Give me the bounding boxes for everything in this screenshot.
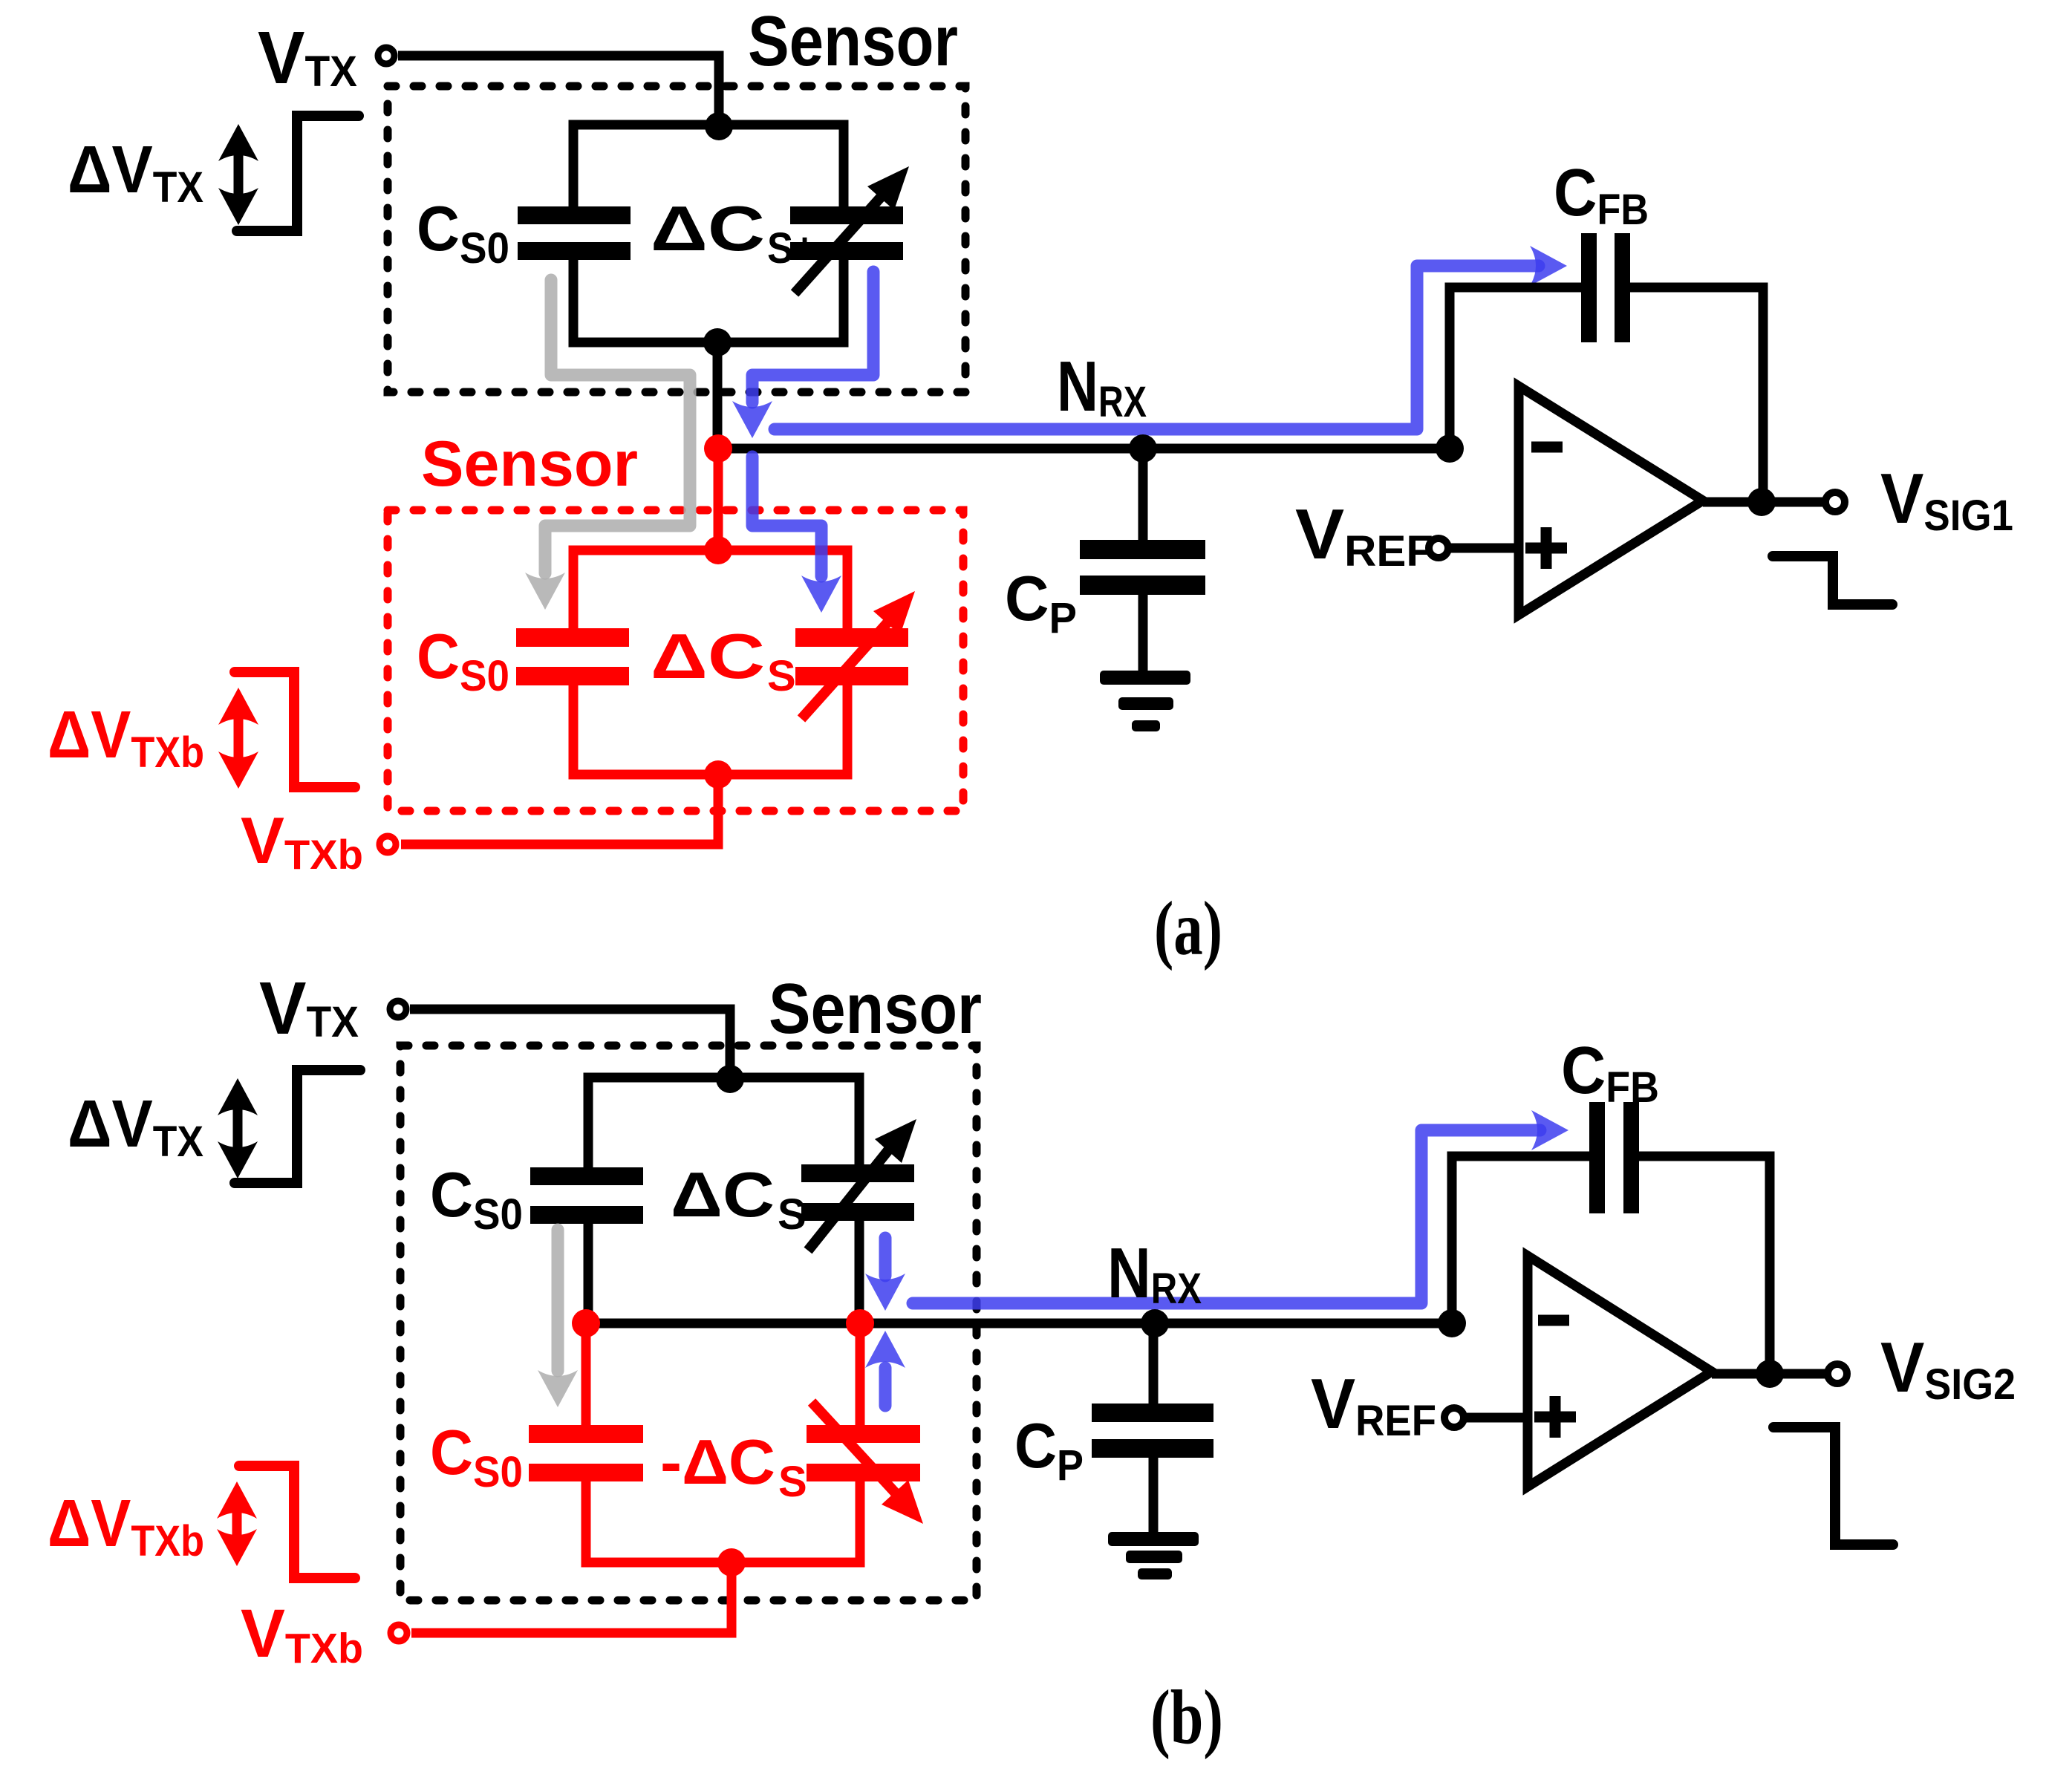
minus sign U1 (a) xyxy=(1531,442,1563,453)
svg-text:S+: S+ xyxy=(767,224,816,273)
wires red rail to red caps (b) xyxy=(586,1323,860,1427)
capacitor red C_S0 (b) plates xyxy=(529,1425,643,1443)
node red right (b) xyxy=(846,1309,874,1337)
node N_RX dot (a) xyxy=(1129,434,1157,463)
wire C_P to ground (a) xyxy=(1138,595,1148,672)
wires caps to middle rail (b) xyxy=(588,1219,859,1323)
svg-text:-ΔC: -ΔC xyxy=(660,1427,775,1498)
gray charge arrow (b) xyxy=(552,1230,564,1371)
step waveform dV_TXb (b) xyxy=(239,1466,355,1578)
svg-text:VSIG1: VSIG1 xyxy=(1880,459,2013,540)
svg-text:(a): (a) xyxy=(1154,886,1222,971)
variable arrow of dC_S (b) xyxy=(808,1147,891,1251)
node red left (b) xyxy=(572,1309,600,1337)
wire red top cap loop (a) xyxy=(573,550,847,630)
wire N_RX horizontal (a) xyxy=(717,444,1450,454)
sensor box (a) red dashed xyxy=(388,510,963,811)
svg-text:S-: S- xyxy=(767,652,810,700)
terminal V_TXb (a) xyxy=(379,836,396,852)
wire V_TX to sensor node (b) xyxy=(410,1009,730,1076)
blue arrow down at node (b) xyxy=(879,1238,892,1276)
svg-text:CP: CP xyxy=(1005,564,1077,642)
node red bottom (a) xyxy=(704,760,732,789)
wire feedback left (b) xyxy=(1452,1156,1589,1323)
blue charge path upper (a) xyxy=(752,272,873,402)
svg-text:CFB: CFB xyxy=(1554,156,1649,234)
blue charge path lower (a) xyxy=(752,457,821,576)
gray arrowhead (a) xyxy=(525,573,565,610)
svg-text:ΔVTX: ΔVTX xyxy=(68,1087,203,1166)
terminal V_REF (a) xyxy=(1429,538,1448,558)
node junction top (a) xyxy=(705,112,733,140)
capacitor C_FB (a) plates xyxy=(1581,233,1597,342)
svg-text:CP: CP xyxy=(1014,1411,1084,1490)
node junction top (b) xyxy=(716,1065,744,1093)
svg-text:VTXb: VTXb xyxy=(241,1596,363,1672)
terminal V_TXb (b) xyxy=(391,1625,407,1641)
wire op-amp output (a) xyxy=(1703,498,1824,507)
ground symbol (a) xyxy=(1100,671,1190,685)
node junction at op-amp input (a) xyxy=(1436,434,1464,463)
wire red bottom loop (b) xyxy=(586,1480,860,1562)
svg-text:Sensor: Sensor xyxy=(769,969,982,1049)
wire middle rail N_RX (b) xyxy=(586,1319,1452,1329)
op-amp U2 triangle (b) xyxy=(1528,1256,1712,1487)
wire feedback right to output (a) xyxy=(1630,287,1763,502)
wire V_REF to plus input (a) xyxy=(1450,544,1519,553)
wire V_TX to sensor top node xyxy=(398,56,719,120)
plus sign U1 (a) xyxy=(1525,527,1567,569)
svg-text:CS0: CS0 xyxy=(417,194,509,273)
terminal V_TX (b) xyxy=(390,1001,406,1017)
blue path along N_RX to C_FB (b) xyxy=(913,1130,1540,1303)
wire sensor to N_RX node (a) xyxy=(713,342,723,449)
svg-text:VREF: VREF xyxy=(1311,1364,1436,1445)
wire red vertical node link (a) xyxy=(714,449,723,550)
node red bottom (b) xyxy=(717,1548,746,1577)
blue arrow up at node (b) xyxy=(879,1368,892,1406)
svg-text:NRX: NRX xyxy=(1057,347,1147,426)
double arrow dV_TX (a) xyxy=(234,146,244,203)
wire feedback right to output (b) xyxy=(1639,1156,1770,1374)
wire top cap loop (a) xyxy=(573,125,844,208)
svg-text:VTX: VTX xyxy=(258,16,357,100)
svg-text:ΔVTXb: ΔVTXb xyxy=(48,1487,204,1565)
terminal V_SIG2 (b) xyxy=(1828,1364,1847,1383)
wire op-amp output (b) xyxy=(1712,1369,1826,1379)
double arrow dV_TXb (a) xyxy=(234,709,244,767)
wire N_RX to C_P (b) xyxy=(1149,1323,1159,1404)
svg-text:ΔVTX: ΔVTX xyxy=(68,133,203,212)
node red top (a) xyxy=(704,536,732,564)
variable arrow of dC_S+ (a) xyxy=(795,194,884,293)
wire bottom cap loop (a) xyxy=(573,258,844,342)
variable arrow of red -dC_S (b) points down-right xyxy=(812,1402,898,1496)
capacitor C_P (a) plates xyxy=(1080,540,1205,559)
terminal V_SIG1 (a) xyxy=(1825,492,1845,512)
step waveform dV_TXb (a) xyxy=(235,672,355,787)
capacitor red dC_S- (a) plates xyxy=(795,628,908,647)
blue arrowhead onto node (a) xyxy=(732,401,772,438)
ground symbol (b) xyxy=(1108,1532,1199,1546)
svg-text:NRX: NRX xyxy=(1107,1233,1202,1313)
sensor box (b) black dashed xyxy=(400,1046,977,1600)
svg-text:CS0: CS0 xyxy=(417,622,509,700)
capacitor C_S0 (b) plates xyxy=(530,1167,643,1185)
terminal V_REF (b) xyxy=(1444,1408,1464,1427)
svg-text:VTXb: VTXb xyxy=(241,803,363,878)
minus sign U2 (b) xyxy=(1538,1315,1569,1326)
blue arrowhead into C_FB (b) xyxy=(1531,1110,1568,1150)
capacitor dC_S+ (a) plates xyxy=(790,206,903,224)
op-amp U1 triangle (a) xyxy=(1519,386,1703,615)
svg-text:Sensor: Sensor xyxy=(748,1,958,81)
blue path along N_RX to C_FB (a) xyxy=(775,266,1539,429)
step waveform V_SIG1 (a) xyxy=(1773,556,1892,604)
svg-text:ΔVTXb: ΔVTXb xyxy=(48,698,204,777)
gray charge path (a) xyxy=(545,280,690,573)
capacitor red C_S0 (a) plates xyxy=(516,628,629,647)
svg-text:Sensor: Sensor xyxy=(421,428,638,500)
node red at N_RX (a) xyxy=(704,434,732,463)
wire red to V_TXb terminal (b) xyxy=(411,1562,732,1633)
svg-text:ΔC: ΔC xyxy=(651,622,765,692)
step waveform dV_TX (a) xyxy=(237,116,359,231)
wire red to V_TXb terminal (a) xyxy=(401,775,718,844)
node output junction (a) xyxy=(1747,488,1776,516)
capacitor dC_S (b) plates xyxy=(801,1164,914,1182)
plus sign U2 (b) xyxy=(1534,1396,1576,1438)
sensor box (a) black dashed xyxy=(388,86,965,392)
double arrow dV_TXb (b) xyxy=(232,1503,242,1545)
node output junction (b) xyxy=(1756,1360,1784,1388)
node junction at op-amp input (b) xyxy=(1438,1309,1466,1337)
svg-text:S: S xyxy=(778,1458,807,1506)
svg-text:(b): (b) xyxy=(1150,1675,1223,1760)
wire C_P to ground (b) xyxy=(1149,1458,1159,1533)
blue arrowhead into C_FB (a) xyxy=(1530,246,1567,286)
wire V_REF to plus input (b) xyxy=(1465,1413,1528,1423)
svg-text:ΔC: ΔC xyxy=(671,1160,775,1230)
capacitor C_P (b) plates xyxy=(1092,1404,1213,1422)
wire top cap loop (b) xyxy=(588,1078,859,1169)
variable arrow of red dC_S- (a) xyxy=(801,619,890,719)
svg-text:CFB: CFB xyxy=(1561,1034,1659,1112)
capacitor red -dC_S (b) plates xyxy=(807,1425,920,1443)
capacitor C_S0 (a) plates xyxy=(518,206,631,224)
svg-text:VREF: VREF xyxy=(1295,495,1433,576)
node N_RX dot (b) xyxy=(1141,1309,1169,1337)
capacitor C_FB (b) plates xyxy=(1589,1102,1605,1213)
double arrow dV_TX (b) xyxy=(233,1100,243,1157)
wire red bottom cap loop (a) xyxy=(573,683,847,775)
terminal V_TX xyxy=(378,48,394,64)
node junction bottom (a) xyxy=(703,328,732,356)
blue arrowhead onto red cap (a) xyxy=(801,576,841,613)
wire feedback left (a) xyxy=(1450,287,1581,449)
svg-text:VTX: VTX xyxy=(259,967,359,1050)
svg-text:ΔC: ΔC xyxy=(651,194,765,264)
wire N_RX to C_P (a) xyxy=(1138,449,1148,540)
step waveform V_SIG2 (b) xyxy=(1773,1427,1893,1545)
svg-text:CS0: CS0 xyxy=(430,1418,523,1496)
svg-text:CS0: CS0 xyxy=(430,1160,523,1239)
svg-text:S: S xyxy=(778,1190,807,1239)
svg-text:VSIG2: VSIG2 xyxy=(1880,1328,2016,1409)
step waveform dV_TX (b) xyxy=(235,1070,360,1183)
